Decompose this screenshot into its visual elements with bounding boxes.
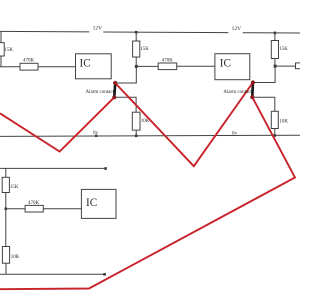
svg-text:12V: 12V — [232, 26, 242, 32]
wire 12V top rail segment middle — [103, 31, 228, 34]
node red contact dot B top — [251, 80, 255, 84]
svg-text:0v: 0v — [93, 131, 99, 136]
node dot under 0v label — [95, 135, 97, 137]
resistor R1 1.5K vertical left — [0, 43, 4, 56]
wire red alarm loop segment 3 — [0, 97, 295, 289]
wire R11 to 0v rail C — [5, 263, 7, 274]
resistor R7 470K horizontal cut at right edge — [296, 63, 303, 69]
wire 470K to IC C — [43, 208, 81, 210]
svg-text:Alarm contact: Alarm contact — [86, 90, 115, 95]
wire red alarm loop segment 1 — [0, 97, 114, 151]
svg-text:IC: IC — [86, 197, 97, 209]
node junction cell C — [5, 208, 8, 211]
wire junction C down to R11 — [5, 209, 7, 247]
wire junction to 470K right cut — [275, 65, 296, 67]
wire junction C to 470K — [6, 208, 25, 210]
svg-text:15K: 15K — [10, 185, 19, 190]
wire contact A bottom to R5 — [114, 97, 136, 112]
resistor R3 1.5K vertical cell B — [133, 41, 140, 57]
node red contact dot A bottom — [112, 95, 116, 99]
node T joint on 12V rail at R6 — [274, 32, 277, 35]
wire R5 to 0v rail — [135, 130, 137, 136]
node dot R5 at 0v rail — [135, 135, 138, 138]
resistor R9 15K vertical cell C — [2, 177, 9, 192]
svg-text:10K: 10K — [279, 120, 288, 125]
node junction cell B input — [135, 65, 138, 68]
svg-text:IC: IC — [80, 58, 91, 70]
wire 0v rail cell C — [0, 273, 105, 275]
op-amp U3 IC box cell C — [81, 189, 116, 218]
resistor R2 470K horizontal cell A — [20, 63, 38, 70]
resistor R10 470K horizontal cell C — [25, 205, 43, 212]
wire 470K to IC A — [38, 66, 76, 68]
wire R8 to 0v rail — [274, 129, 276, 136]
wire junction up to R3 — [135, 57, 137, 66]
svg-text:12V: 12V — [93, 25, 103, 31]
wire 12V top rail segment left — [0, 30, 89, 33]
op-amp U1 IC box cell A — [76, 54, 112, 79]
node red contact dot B bottom — [250, 95, 254, 99]
svg-text:15K: 15K — [140, 47, 149, 52]
wire contact B top to junction right — [253, 66, 275, 82]
wire red alarm loop segment 2 — [115, 83, 253, 167]
wire R3 to 12V rail — [135, 32, 137, 41]
node T joint on 12V rail at R3 — [135, 31, 138, 34]
resistor R11 10K vertical cell C — [2, 247, 9, 264]
svg-text:Alarm contact: Alarm contact — [223, 90, 252, 95]
node red contact dot A top — [113, 81, 117, 85]
resistor R4 470K horizontal cell B — [158, 63, 177, 70]
svg-text:15K: 15K — [4, 48, 13, 53]
svg-text:470K: 470K — [28, 201, 40, 206]
resistor R8 10K vertical below contact B — [271, 111, 278, 128]
svg-text:IC: IC — [220, 58, 231, 70]
wire R9 to junction C — [5, 193, 7, 209]
wire junction up to R6 — [274, 59, 276, 67]
wire 12V rail cell C bottom — [0, 167, 106, 169]
wire contact A top to junction — [115, 66, 136, 83]
resistor R6 1.5K vertical right — [271, 41, 278, 59]
node end dot 0v rail cell C — [103, 273, 106, 276]
wire junction to 470K cell B — [136, 65, 158, 67]
node dot R8 at 0v rail — [274, 134, 277, 137]
wire contact B bottom to R8 — [252, 97, 274, 111]
op-amp U2 IC box cell B — [215, 54, 250, 80]
wire R6 to 12V rail — [274, 33, 276, 41]
svg-text:0v: 0v — [232, 132, 238, 137]
svg-text:470K: 470K — [23, 59, 35, 64]
node end dot rail cell C — [104, 167, 107, 170]
wire 12V top rail segment right — [243, 32, 300, 34]
wire pull-up drop R1 — [0, 31, 2, 42]
wire 470K to IC B — [177, 65, 215, 67]
resistor R5 100K vertical below contact A — [132, 112, 140, 130]
node junction right input — [274, 65, 277, 68]
wire drop to R9 — [5, 168, 7, 177]
svg-text:470K: 470K — [162, 58, 174, 63]
svg-text:10K: 10K — [141, 119, 150, 124]
svg-text:10K: 10K — [11, 255, 20, 260]
wire input cell A — [0, 66, 20, 68]
svg-text:15K: 15K — [279, 47, 288, 52]
alarm contact SW1 bar — [113, 83, 116, 97]
wire below R1 — [0, 56, 2, 67]
alarm contact SW2 bar — [251, 83, 254, 98]
wire 0v rail top row — [0, 135, 300, 136]
